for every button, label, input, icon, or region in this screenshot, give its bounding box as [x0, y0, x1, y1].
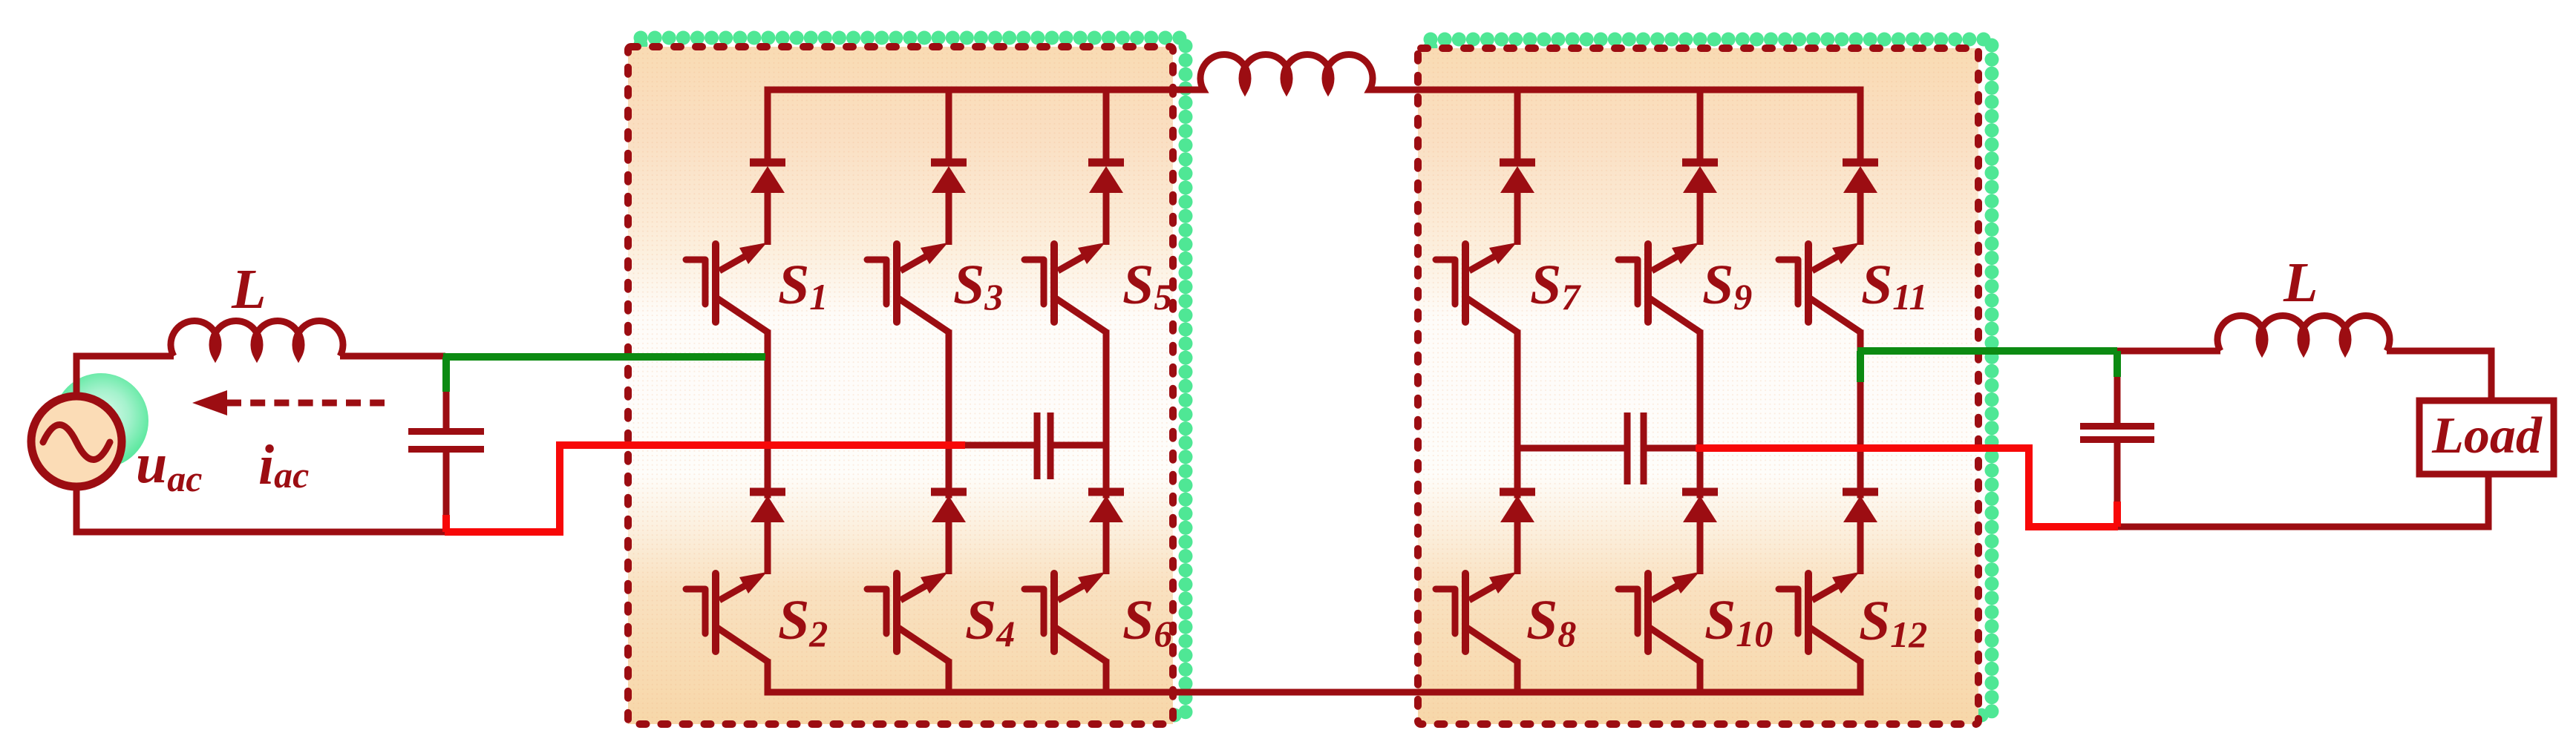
switch S11: [1779, 162, 1878, 333]
switch S7: [1436, 162, 1535, 333]
red stub at left cap bottom: [442, 515, 450, 532]
green stub at right cap top: [2114, 351, 2121, 377]
red wire right: converter mid row to right cap bottom: [1696, 448, 2118, 527]
switch S6: [1024, 492, 1124, 663]
ac source glow: [53, 373, 148, 468]
wire source top to inductor L: [76, 356, 174, 393]
wire source bottom: [76, 490, 446, 532]
wire inductor to load top: [2387, 351, 2491, 401]
right converter box fill: [1418, 48, 1978, 724]
inductor L (right): [2217, 316, 2390, 351]
column verticals left box: [765, 90, 771, 692]
wire right cap to inductor L right: [2117, 348, 2220, 355]
right filter capacitor leads: [2114, 374, 2121, 423]
inductor L (left): [171, 321, 343, 356]
svg-text:Load: Load: [2431, 407, 2543, 464]
green wire right: S11 emitter to right cap: [1857, 347, 2117, 355]
svg-text:L: L: [2283, 252, 2318, 314]
green shadow of left converter box: [641, 38, 1186, 715]
svg-text:uac: uac: [136, 433, 202, 499]
left converter box dashed border: [628, 47, 1173, 724]
svg-text:iac: iac: [258, 434, 309, 496]
switch S2: [686, 492, 785, 663]
switch S12: [1779, 492, 1878, 663]
bottom rail between converters: [768, 689, 1860, 696]
column verticals right box: [1514, 90, 1521, 692]
svg-text:L: L: [231, 258, 266, 321]
switch S9: [1618, 162, 1718, 333]
sine symbol in source: [43, 425, 110, 460]
filter capacitor C1 vertical leads: [443, 389, 450, 428]
red wire left: cap bottom to converter mid row: [445, 445, 965, 532]
dashed current arrow i_ac: [226, 400, 385, 407]
wire bottom right to load: [2117, 474, 2488, 527]
switch S8: [1436, 492, 1535, 663]
wire inductor to node A: [340, 353, 445, 360]
green stub at S11: [1857, 351, 1864, 382]
green stub at left cap top: [442, 357, 450, 392]
right converter box dashed border: [1418, 48, 1978, 724]
switch S10: [1618, 492, 1718, 663]
switch S5: [1024, 162, 1124, 333]
top rail: left box through center inductor to right box: [768, 55, 1860, 90]
left converter box fill: [628, 47, 1173, 724]
switch S3: [867, 162, 967, 333]
load box: [2419, 401, 2554, 474]
green wire left: node A to S1 emitter: [443, 353, 765, 361]
ac source u_ac: [31, 396, 122, 487]
dc-link capacitor left box: [949, 442, 1106, 449]
dc-link capacitor right box: [1517, 445, 1700, 452]
switch S4: [867, 492, 967, 663]
switch S1 (IGBT + diode): [686, 162, 785, 333]
green shadow of right converter box: [1431, 39, 1992, 715]
red stub at right cap bottom: [2114, 502, 2121, 527]
